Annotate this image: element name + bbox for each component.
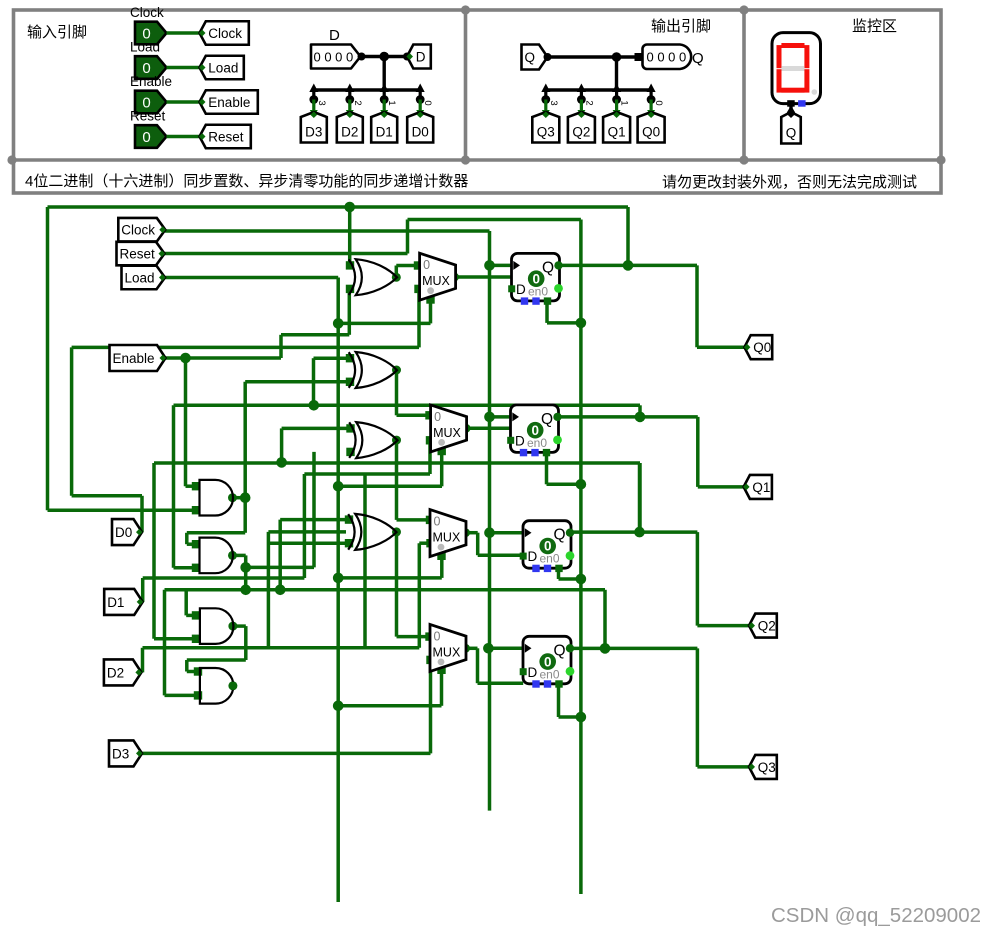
wire MUX3 out to R3 D <box>478 553 523 557</box>
wire drop to AND4 in2 <box>163 590 167 696</box>
wire splitter Q stem <box>615 57 618 90</box>
wire Enable run <box>166 356 282 360</box>
MUX3 output <box>461 528 470 537</box>
wire XOR3 out to MUX3 in0 <box>397 518 431 522</box>
junction Reset/en0-4 <box>576 712 587 723</box>
MUX3 sel port <box>437 552 445 560</box>
and gate AND1 <box>200 480 234 516</box>
XOR2 output <box>392 366 401 375</box>
input pin D (4-bit) <box>311 45 361 69</box>
svg-text:1: 1 <box>386 100 397 105</box>
AND1 in1 port <box>192 482 200 490</box>
junction Enable <box>180 353 191 364</box>
junction Q2/XOR3 <box>276 457 287 468</box>
tunnel Enable (header) <box>200 90 258 114</box>
wire splitter to D0 <box>419 100 422 115</box>
AND4 in2 port <box>194 691 202 699</box>
svg-text:0: 0 <box>422 100 433 105</box>
register R2 bottom blue port 2 <box>531 449 538 456</box>
wire AND1 out down <box>243 498 247 533</box>
wire Q1 feedback run <box>174 404 641 408</box>
AND4 in1 port <box>194 667 202 675</box>
wire D0 riser to MUX1 in1 <box>417 292 421 348</box>
wire XOR4 back link <box>268 530 346 534</box>
svg-text:0: 0 <box>434 629 441 643</box>
register R1 en port square <box>544 297 551 304</box>
svg-text:Q: Q <box>542 259 554 276</box>
wire D1 run <box>143 576 305 580</box>
wire XOR3 out jog <box>395 440 399 520</box>
XOR4 output <box>392 527 401 536</box>
svg-text:Q1: Q1 <box>752 480 770 495</box>
wire D0 link <box>72 494 142 498</box>
wire Reset run a <box>164 252 408 256</box>
junction D wire <box>379 52 389 62</box>
svg-text:0: 0 <box>434 410 441 424</box>
wire R3 en0 to Reset <box>559 577 581 581</box>
tunnel Q0 (header) <box>638 112 665 143</box>
svg-text:0: 0 <box>653 100 664 105</box>
wire Load trunk vertical <box>336 278 340 903</box>
tunnel Q1 (circuit) <box>744 475 772 499</box>
xor gate XOR1 <box>349 259 397 295</box>
AND2 output <box>228 551 237 560</box>
wire AND4 in2 stub <box>165 694 199 698</box>
wire AND4 in1 stub <box>187 670 198 674</box>
junction AND2/carry <box>240 585 251 596</box>
register R3 D port square <box>520 553 527 560</box>
wire Q0 top run <box>48 205 629 209</box>
wire MUX4 out to R4 <box>478 681 524 685</box>
svg-text:0: 0 <box>142 129 150 146</box>
mux MUX4 select dot <box>438 659 445 666</box>
wire XOR3 in1 riser <box>280 428 284 462</box>
7-segment segment top-left (on) <box>777 45 782 68</box>
XOR1 in1 port <box>346 261 354 269</box>
register R4 Q output port <box>566 644 574 652</box>
splitter D leg bit 3 <box>309 84 318 93</box>
wire AND2 out to XOR3 in2 run <box>246 566 314 570</box>
tunnel Clock (header) <box>200 21 249 45</box>
wire Q0 to XOR1 in1 <box>348 207 352 265</box>
AND3 in1 port <box>192 611 200 619</box>
AND3 in2 port <box>192 635 200 643</box>
wire Q1 drop to tunnel <box>696 417 700 487</box>
wire XOR2 out jog <box>395 370 399 415</box>
tunnel Q3 (circuit) <box>749 755 777 779</box>
register R4 enable-out port <box>566 667 575 676</box>
7-segment segment top-right (on) <box>804 45 809 68</box>
junction Q3 feedback <box>600 643 611 654</box>
AND1 in2 port <box>192 506 200 514</box>
wire AND3 in1 stub <box>186 614 196 618</box>
register R3 bottom blue port 1 <box>532 565 539 572</box>
AND2 in1 port <box>192 540 200 548</box>
svg-text:输出引脚: 输出引脚 <box>651 18 711 35</box>
register R4 <box>523 636 571 684</box>
header divider horizontal <box>12 158 942 162</box>
wire splitter to D3 <box>312 100 315 115</box>
junction Load/sel4 <box>333 701 344 712</box>
wire Q0 drop to tunnel <box>695 265 699 347</box>
wire AND4 in1 riser <box>185 660 189 672</box>
output pin Q (4-bit) <box>643 45 692 70</box>
wire Q3 drop to tunnel <box>696 648 700 767</box>
svg-text:Q3: Q3 <box>537 125 555 140</box>
svg-text:CSDN @qq_52209002: CSDN @qq_52209002 <box>771 904 981 927</box>
7-segment decimal point (off) <box>812 89 818 95</box>
input pin Reset <box>135 125 167 148</box>
wire Q2 feedback run <box>154 461 640 465</box>
tunnel Q2 (circuit) <box>749 614 777 638</box>
MUX1 output <box>450 273 459 282</box>
frame joint dot <box>461 155 470 164</box>
wire splitter to Q1 <box>615 100 618 115</box>
junction Clock/R4 <box>483 643 494 654</box>
wire MUX4 out stub <box>466 647 478 651</box>
7-segment segment bottom-left (on) <box>777 69 782 92</box>
wire D1 riser <box>303 474 307 578</box>
wire Clock trunk vertical <box>488 231 492 811</box>
svg-text:D1: D1 <box>376 125 393 140</box>
wire MUX4 select riser <box>440 671 444 706</box>
tunnel Reset (circuit) <box>117 242 165 266</box>
wire MUX2 out to R2 D <box>466 427 511 431</box>
svg-text:D0: D0 <box>115 525 132 540</box>
wire MUX2 in1 drop <box>428 440 432 474</box>
wire R1 en0 to Reset <box>547 321 581 325</box>
splitter Q spine <box>544 88 652 91</box>
register R4 D port square <box>520 668 527 675</box>
svg-text:en0: en0 <box>540 552 560 566</box>
tunnel D0 (circuit) <box>112 519 142 545</box>
MUX1 sel port <box>426 295 434 303</box>
junction Load/sel1 <box>333 318 344 329</box>
splitter D leg bit 0 <box>416 84 425 93</box>
svg-text:Clock: Clock <box>130 5 164 20</box>
svg-text:D2: D2 <box>341 125 358 140</box>
frame joint dot <box>936 155 945 164</box>
wire Clock run <box>165 229 490 233</box>
wire Q2 to AND3 in2 <box>154 637 196 641</box>
junction Reset/en0-2 <box>576 479 587 490</box>
svg-text:0 0 0 0: 0 0 0 0 <box>314 50 354 65</box>
MUX4 output <box>461 644 470 653</box>
wire Q0 to AND1 in2 <box>48 508 197 512</box>
mux MUX3 select dot <box>438 544 445 551</box>
XOR2 in2 port <box>346 378 354 386</box>
wire Q1 feedback drop <box>638 405 642 417</box>
wire D2 riser to MUX3 in1 <box>418 543 422 648</box>
wire AND2 in1 riser <box>185 533 189 544</box>
svg-text:en0: en0 <box>527 436 547 450</box>
wire MUX3 out stub <box>466 531 478 535</box>
svg-text:Q3: Q3 <box>758 760 776 775</box>
7-segment segment middle (off) <box>781 66 804 71</box>
wire to Q0 tunnel <box>697 345 744 349</box>
wire Enable to AND1 in1 <box>186 484 197 488</box>
svg-text:请勿更改封装外观，否则无法完成测试: 请勿更改封装外观，否则无法完成测试 <box>662 174 917 191</box>
wire Enable upper run <box>281 333 349 337</box>
svg-text:Load: Load <box>208 60 238 75</box>
xor gate XOR2 <box>349 352 397 388</box>
wire R1 en0 drop <box>545 301 549 323</box>
mux MUX3 <box>430 510 466 557</box>
wire Load to MUX2 select run <box>338 485 442 489</box>
svg-text:Load: Load <box>130 40 160 55</box>
input pin Load <box>135 56 167 79</box>
MUX4 in0 port <box>425 632 433 640</box>
wire D0 left vertical <box>70 347 74 495</box>
wire R2 en0 to Reset <box>547 483 581 487</box>
MUX1 in0 port <box>414 261 422 269</box>
svg-text:en0: en0 <box>528 284 548 298</box>
wire D3 riser to MUX4 in1 <box>429 662 433 753</box>
svg-text:Q0: Q0 <box>642 125 660 140</box>
svg-text:D1: D1 <box>107 595 124 610</box>
XOR1 in2 port <box>346 285 354 293</box>
svg-text:4位二进制（十六进制）同步置数、异步清零功能的同步递增计数器: 4位二进制（十六进制）同步置数、异步清零功能的同步递增计数器 <box>25 173 468 190</box>
tunnel Q (monitor) <box>781 112 801 144</box>
wire to XOR4 in2 run <box>268 541 350 545</box>
wire D2 apex riser <box>141 648 145 673</box>
junction Load/sel3 <box>333 573 344 584</box>
wire XOR4 in1 riser <box>278 520 282 590</box>
svg-text:D3: D3 <box>305 125 322 140</box>
register R1 D port square <box>508 285 515 292</box>
svg-text:0: 0 <box>423 258 430 272</box>
register R4 state circle 0 <box>539 653 556 670</box>
7-segment segment bottom (on) <box>781 88 804 93</box>
register R2 state circle 0 <box>527 422 544 439</box>
frame joint dot <box>739 5 748 14</box>
header divider vertical 2 <box>742 10 746 160</box>
register R2 D port square <box>507 437 514 444</box>
register R3 <box>523 521 571 569</box>
wire XOR2 in1 riser <box>312 358 316 405</box>
junction Q0/XOR1 <box>344 202 355 213</box>
splitter D spine <box>312 88 421 91</box>
junction Clock/R1 <box>484 260 495 271</box>
mux MUX2 <box>431 405 467 452</box>
junction AND1 out <box>240 492 251 503</box>
MUX2 in0 port <box>425 411 433 419</box>
svg-text:Q0: Q0 <box>753 340 771 355</box>
svg-text:2: 2 <box>352 100 363 105</box>
wire Clock to R1 clk <box>490 264 513 268</box>
wire Q1 to AND2 in2 <box>174 566 197 570</box>
MUX3 in0 port <box>426 516 434 524</box>
wire pin Enable to tunnel <box>167 100 200 104</box>
wire R4 Q out run <box>572 647 697 651</box>
wire Q1 drop to AND2 <box>172 405 176 568</box>
MUX2 in1 port <box>426 436 434 444</box>
7-segment input port blue <box>798 100 806 107</box>
7-segment input port black <box>787 100 795 107</box>
wire Load to MUX1 select <box>338 322 430 326</box>
svg-text:MUX: MUX <box>433 645 461 659</box>
wire R2 Q out run <box>558 415 698 419</box>
junction Reset/en0-1 <box>576 318 587 329</box>
junction Q2 feedback <box>634 527 645 538</box>
wire D pin to splitter (bus) <box>362 55 408 58</box>
register R3 bottom blue port 2 <box>544 565 551 572</box>
svg-text:Q2: Q2 <box>572 125 590 140</box>
wire AND2 out stub <box>233 554 246 558</box>
svg-text:输入引脚: 输入引脚 <box>27 24 87 41</box>
wire AND1 out to AND2 in1 run <box>187 531 245 535</box>
tunnel D1 (header) <box>371 112 397 143</box>
svg-text:Q: Q <box>541 411 553 428</box>
AND1 output <box>228 493 237 502</box>
frame joint dot <box>461 5 470 14</box>
splitter Q leg bit 3 <box>541 84 550 93</box>
wire R2 en0 drop <box>545 452 549 484</box>
junction Reset/en0-3 <box>576 574 587 585</box>
svg-text:D2: D2 <box>107 665 124 680</box>
tunnel D3 (circuit) <box>109 740 142 766</box>
junction R1Q/top <box>623 260 634 271</box>
register R1 bottom blue port 2 <box>532 297 539 304</box>
wire XOR4 out to MUX4 in0 <box>397 635 430 639</box>
svg-text:Q: Q <box>786 126 797 141</box>
wire MUX3 out jog down <box>476 533 480 556</box>
wire XOR2 out to MUX2 in0 <box>397 414 430 418</box>
register R1 Q output port <box>554 261 562 269</box>
XOR2 in1 port <box>346 354 354 362</box>
and gate AND2 <box>200 538 233 574</box>
wire AND2 out down <box>244 555 248 589</box>
splitter D leg bit 1 <box>380 84 389 93</box>
input pin Clock <box>135 22 167 45</box>
junction AND2 out <box>240 562 251 573</box>
MUX4 in1 port <box>426 656 434 664</box>
register R1 clock notch <box>513 261 520 270</box>
tunnel D2 (circuit) <box>104 659 141 685</box>
wire Reset run b <box>408 218 581 222</box>
svg-text:Q: Q <box>692 50 704 67</box>
wire R1 Q out run <box>558 264 697 268</box>
wire Load to MUX4 select run <box>338 704 441 708</box>
wire D2 run <box>143 646 420 650</box>
XOR3 output <box>392 436 401 445</box>
register R4 bottom blue port 1 <box>532 680 539 687</box>
svg-text:Load: Load <box>125 270 155 285</box>
junction Q1 feedback <box>635 412 646 423</box>
XOR1 output <box>392 273 401 282</box>
register R2 en port square <box>543 449 550 456</box>
wire D1 apex riser <box>141 578 145 602</box>
junction Clock/R3 <box>484 527 495 538</box>
wire splitter to Q0 <box>649 100 652 115</box>
header divider vertical 1 <box>464 10 468 160</box>
svg-text:1: 1 <box>619 100 630 105</box>
wire Load to MUX3 select run <box>338 576 442 580</box>
register R1 bottom blue port 1 <box>521 297 528 304</box>
tunnel Load (header) <box>200 56 244 80</box>
svg-text:MUX: MUX <box>433 426 461 440</box>
wire Q3 feedback drop <box>603 590 607 649</box>
XOR3 in2 port <box>346 448 354 456</box>
wire Q2 feedback drop <box>638 463 642 532</box>
wire Q1 to XOR2 in1 stub <box>314 356 351 360</box>
wire XOR1 out jog <box>395 266 399 278</box>
splitter Q leg bit 0 <box>647 84 656 93</box>
tunnel D3 (header) <box>301 112 327 143</box>
svg-text:2: 2 <box>583 100 594 105</box>
wire XOR1 out to MUX1 in0 <box>396 264 418 268</box>
wire AND1 out stub <box>233 496 246 500</box>
wire AND3 out to AND4 in1 run <box>187 658 246 662</box>
tunnel Q0 (circuit) <box>744 335 772 359</box>
wire AND3 out down <box>244 626 248 660</box>
register R3 en port square <box>555 565 562 572</box>
svg-text:0: 0 <box>434 515 441 529</box>
wire AND2 in1 stub <box>187 542 196 546</box>
tunnel Q2 (header) <box>568 112 595 143</box>
mux MUX1 select dot <box>427 287 434 294</box>
wire MUX1 select riser <box>429 301 433 324</box>
wire Q3 to XOR4 in1 <box>280 518 349 522</box>
MUX2 output <box>462 424 471 433</box>
wire XOR4 out jog long <box>395 532 399 637</box>
wire MUX2 select riser <box>440 452 444 486</box>
svg-text:D: D <box>329 27 340 44</box>
wire Q2 drop to AND3 <box>152 463 156 639</box>
svg-text:Q: Q <box>554 642 566 659</box>
register R1 enable-out port <box>554 284 563 293</box>
wire XOR3 in2 riser <box>312 452 316 568</box>
wire D0 run <box>72 346 419 350</box>
svg-text:D: D <box>528 665 538 680</box>
wire Enable drop to AND1 <box>184 358 188 486</box>
wire MUX3 select riser <box>440 557 444 578</box>
wire splitter to Q3 <box>544 100 547 115</box>
wire splitter to D1 <box>383 100 386 115</box>
and gate AND4 <box>200 668 234 704</box>
svg-text:3: 3 <box>548 100 559 105</box>
register R2 Q output port <box>553 413 561 421</box>
register R3 state circle 0 <box>539 538 556 555</box>
svg-text:Q: Q <box>554 527 566 544</box>
wire pin Load to tunnel <box>167 66 200 70</box>
pin D output dot <box>358 53 366 61</box>
svg-text:D: D <box>515 433 525 448</box>
tunnel D (header) <box>407 45 431 69</box>
wire MUX4 out jog down <box>476 648 480 683</box>
svg-text:Q: Q <box>525 50 536 65</box>
wire D2 riser <box>267 532 271 648</box>
register R1 state circle 0 <box>528 270 545 287</box>
junction Q wire <box>612 52 622 62</box>
tunnel Clock (circuit) <box>118 218 165 242</box>
7-segment segment bottom-right (on) <box>804 69 809 92</box>
wire Q0 left drop <box>46 207 50 510</box>
svg-text:D: D <box>416 49 426 64</box>
svg-text:D0: D0 <box>412 125 429 140</box>
wire D1 to MUX2 in1 row <box>304 472 430 476</box>
AND4 output <box>228 681 237 690</box>
AND3 output <box>228 622 237 631</box>
tunnel Q1 (header) <box>603 112 630 143</box>
wire R3 Q out run <box>572 530 697 534</box>
wire Q2 drop to tunnel <box>696 532 700 626</box>
register R4 clock notch <box>525 644 532 653</box>
wire AND1 out riser <box>243 382 247 498</box>
wire D2 riser tap <box>363 474 367 648</box>
svg-text:MUX: MUX <box>422 274 450 288</box>
svg-text:Q2: Q2 <box>758 618 776 633</box>
